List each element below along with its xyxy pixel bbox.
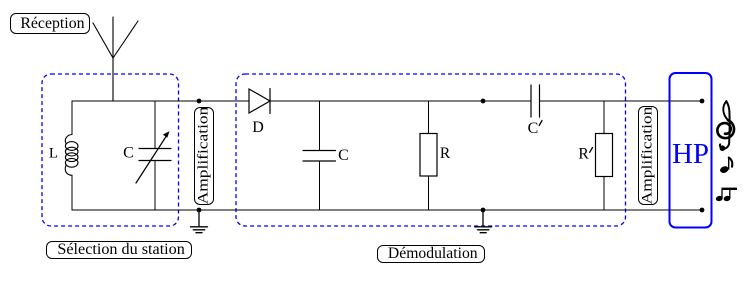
resistor R: [420, 134, 437, 177]
beamed eighth notes: [715, 189, 737, 202]
svg-text:C: C: [338, 147, 349, 164]
variable capacitor C: [136, 135, 171, 183]
svg-text:D: D: [252, 119, 264, 136]
svg-text:R: R: [440, 145, 451, 162]
wire: left branch above inductor: [71, 101, 73, 135]
label box: Reception: [10, 13, 90, 34]
wire: resistor R' branch bottom: [603, 177, 605, 211]
wire: resistor R' branch top: [603, 101, 605, 134]
junction dot: amp1 bottom: [197, 208, 202, 213]
wire: top middle (diode cathode to C' left plate): [271, 100, 532, 102]
wire: left branch below inductor: [71, 175, 73, 210]
label HP: [670, 140, 712, 169]
svg-text:C: C: [528, 120, 539, 137]
junction dot: mid top: [481, 99, 486, 104]
wire: capacitor C branch bottom: [319, 161, 321, 210]
wire: resistor R branch bottom: [428, 176, 430, 210]
label R': [578, 146, 592, 163]
wire: variable capacitor branch top: [154, 101, 156, 149]
antenna: [93, 17, 138, 101]
wire: resistor R branch top: [428, 101, 430, 134]
svg-text:L: L: [49, 146, 58, 162]
junction dot: amp1 top: [197, 99, 202, 104]
HP speaker box: [670, 73, 712, 228]
junction dot: HP top: [700, 99, 705, 104]
ground (left): [191, 210, 208, 233]
eighth note: [719, 158, 732, 175]
amplifier block 1 (Amplification): [194, 107, 215, 206]
capacitor C': [531, 85, 540, 117]
capacitor C: [303, 151, 336, 162]
dashed box: Selection du station: [42, 74, 179, 226]
resistor R': [596, 134, 613, 177]
dashed box: Demodulation: [236, 74, 626, 226]
wire: capacitor C branch top: [319, 101, 321, 151]
amplifier block 2 (Amplification): [638, 106, 659, 205]
diode D: [249, 89, 270, 114]
ground (middle): [475, 210, 492, 233]
svg-text:C: C: [123, 145, 134, 162]
label box: Selection du station: [46, 241, 192, 260]
inductor L: [65, 135, 78, 176]
label C': [528, 120, 542, 137]
wire: top right (C' right plate to HP): [540, 100, 703, 102]
wire: variable capacitor branch bottom: [154, 161, 156, 211]
junction dot: HP bottom: [700, 208, 705, 213]
wire: bottom rail: [72, 209, 702, 211]
label box: Demodulation: [377, 245, 485, 263]
junction dot: mid bottom: [481, 208, 486, 213]
wire: top left (LC top rail to diode anode): [72, 100, 249, 102]
treble clef: [717, 101, 734, 148]
svg-text:R: R: [578, 146, 589, 163]
